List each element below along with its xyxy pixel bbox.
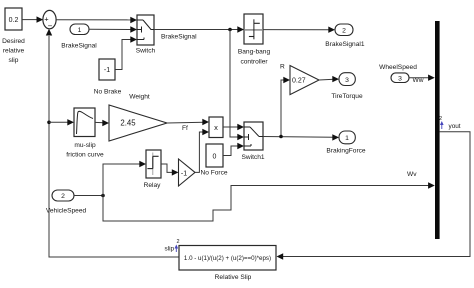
svg-text:0.2: 0.2 — [9, 17, 19, 24]
svg-text:x: x — [214, 123, 218, 132]
wire VehicleSpeed to junction — [74, 195, 103, 197]
svg-text:2: 2 — [342, 27, 346, 34]
wire inport 1 to Switch input 2 — [89, 26, 137, 32]
svg-text:1: 1 — [78, 27, 82, 34]
svg-text:Relative Slip: Relative Slip — [215, 274, 252, 281]
svg-text:BrakeSignal1: BrakeSignal1 — [325, 41, 365, 48]
node label slip with dimension annotation 2 — [165, 239, 180, 253]
switch block Switch1 — [241, 122, 264, 161]
svg-text:-1: -1 — [181, 170, 187, 177]
inport 3 WheelSpeed — [379, 64, 424, 84]
wire junction down to Switch1 control input 2 — [230, 30, 244, 141]
svg-text:1: 1 — [345, 135, 349, 142]
svg-text:slip: slip — [9, 57, 19, 64]
gain block -1 — [179, 159, 196, 186]
wire junction up to Relay input — [103, 161, 146, 196]
wire Switch output to Bang-bang controller, label BrakeSignal — [154, 26, 244, 40]
svg-text:R: R — [280, 64, 285, 71]
product block x — [209, 117, 223, 138]
feedback wire from Fcn output to sum bottom input — [46, 29, 179, 257]
junction node on BrakeSignal wire — [228, 28, 232, 32]
wire constant -1 to Switch input 3 — [115, 36, 137, 69]
svg-text:relative: relative — [3, 48, 25, 55]
svg-text:No Brake: No Brake — [94, 89, 122, 96]
wire gain 0.27 to outport 3 — [319, 76, 339, 82]
svg-text:BrakeSignal: BrakeSignal — [161, 34, 197, 41]
signal dimension annotation 2 at yout — [439, 116, 444, 129]
svg-text:3: 3 — [398, 76, 402, 83]
Fcn block Relative Slip — [179, 246, 276, 282]
svg-text:Wv: Wv — [407, 171, 417, 178]
svg-text:0: 0 — [213, 154, 217, 161]
svg-text:Weight: Weight — [129, 94, 150, 101]
svg-text:Ff: Ff — [182, 125, 188, 132]
constant block 0 (No Force) — [200, 144, 227, 177]
outport 1 BrakingForce — [326, 131, 366, 155]
svg-text:friction curve: friction curve — [66, 152, 104, 159]
svg-text:VehicleSpeed: VehicleSpeed — [46, 208, 87, 215]
junction node on Switch1 output wire — [279, 135, 283, 139]
svg-text:TireTorque: TireTorque — [331, 93, 363, 100]
lookup table block mu-slip friction curve — [66, 108, 104, 159]
wire WheelSpeed to mux — [409, 75, 435, 81]
svg-text:BrakingForce: BrakingForce — [326, 148, 366, 155]
wire gain 2.45 to product, node label Ff — [167, 119, 209, 132]
outport 3 TireTorque — [331, 73, 363, 100]
inport 1 BrakeSignal — [61, 24, 97, 50]
bang-bang controller block — [238, 14, 271, 66]
constant block -1 (No Brake) — [94, 59, 122, 96]
svg-text:Switch: Switch — [136, 48, 156, 55]
svg-text:2: 2 — [61, 193, 65, 200]
wire junction up to gain 0.27 — [281, 77, 290, 137]
sum block (+/-) — [43, 10, 56, 30]
svg-text:2: 2 — [439, 116, 442, 122]
svg-text:3: 3 — [345, 77, 349, 84]
wire Switch1 output to outport 1 BrakingForce — [263, 134, 339, 140]
wire sum to Switch input 1 — [56, 17, 137, 23]
wire constant 0 to Switch1 input 3 — [223, 143, 244, 156]
wire gain -1 to product input 2 — [195, 129, 209, 173]
svg-text:-1: -1 — [104, 67, 110, 74]
junction node on VehicleSpeed wire — [101, 194, 105, 198]
wire constant 0.2 to sum — [22, 16, 43, 22]
inport 2 VehicleSpeed — [46, 190, 87, 215]
svg-text:WheelSpeed: WheelSpeed — [379, 64, 417, 71]
junction node on feedback wire — [47, 121, 51, 125]
svg-text:2: 2 — [177, 239, 180, 245]
svg-text:slip: slip — [165, 246, 175, 253]
wire Bang-bang controller to outport 2 — [263, 27, 335, 33]
mux block (vertical bar) — [435, 21, 440, 239]
gain block 2.45 (Weight) — [109, 94, 167, 142]
wire mux output right, down, left to Fcn input — [277, 132, 471, 260]
switch block Switch — [136, 15, 156, 55]
relay block Relay — [144, 150, 162, 189]
svg-text:−: − — [48, 22, 53, 31]
outport 2 BrakeSignal1 — [325, 24, 365, 48]
svg-text:BrakeSignal: BrakeSignal — [61, 43, 97, 50]
svg-text:mu-slip: mu-slip — [74, 142, 96, 149]
svg-text:No Force: No Force — [200, 170, 227, 177]
svg-text:Bang-bang: Bang-bang — [238, 49, 271, 56]
svg-text:2.45: 2.45 — [120, 119, 136, 128]
wire junction to mu-slip friction curve input — [49, 119, 74, 125]
constant block 0.2 (Desired relative slip) — [2, 8, 25, 64]
wire mu-slip to gain 2.45 — [95, 120, 109, 126]
svg-text:yout: yout — [449, 123, 461, 130]
svg-text:0.27: 0.27 — [292, 78, 306, 85]
svg-text:controller: controller — [240, 59, 268, 66]
wire VehicleSpeed down and right to mux (Wv) — [103, 171, 435, 221]
svg-text:Desired: Desired — [2, 38, 25, 45]
svg-text:1.0 - u(1)/(u(2) + (u(2)==0)*e: 1.0 - u(1)/(u(2) + (u(2)==0)*eps) — [184, 255, 271, 262]
gain block 0.27 — [290, 66, 319, 95]
wire Relay to gain -1 — [161, 164, 179, 176]
svg-text:Relay: Relay — [144, 182, 162, 189]
wire product to Switch1 input 1 — [223, 124, 244, 130]
svg-text:Switch1: Switch1 — [241, 154, 264, 161]
